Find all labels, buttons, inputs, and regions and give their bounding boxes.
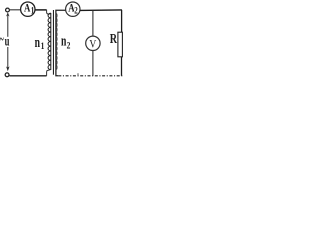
wire dashed return rail bbox=[58, 75, 122, 77]
secondary winding n2 scallops bbox=[56, 13, 57, 69]
voltage arrow shaft upper bbox=[7, 14, 9, 37]
svg-text:1: 1 bbox=[41, 40, 45, 51]
junction tick artifact on rail bbox=[77, 73, 79, 75]
label R bbox=[110, 30, 118, 46]
label n2 bbox=[61, 33, 66, 50]
svg-text:~: ~ bbox=[0, 30, 4, 48]
label n1 bbox=[35, 34, 40, 51]
primary winding bottom lead bbox=[47, 69, 51, 75]
wire terminal to A1 bbox=[10, 9, 21, 11]
secondary axis line with corner to A2 wire and bottom corner bbox=[56, 10, 66, 76]
svg-text:R: R bbox=[110, 30, 118, 46]
voltage arrow shaft lower bbox=[7, 47, 9, 68]
wire resistor bottom lead bbox=[121, 57, 123, 76]
ammeter A1 bbox=[21, 2, 35, 16]
label ~u bbox=[0, 30, 4, 48]
wire A2 to right corner bbox=[80, 9, 122, 12]
transformer core line bbox=[52, 10, 54, 75]
svg-text:2: 2 bbox=[67, 40, 71, 51]
svg-text:n: n bbox=[35, 34, 40, 51]
resistor R body bbox=[118, 32, 123, 57]
primary winding axis bbox=[50, 13, 52, 70]
primary winding n1 loops bbox=[48, 13, 51, 69]
svg-text:2: 2 bbox=[74, 6, 77, 16]
svg-text:u: u bbox=[5, 35, 10, 49]
terminal (bottom-left input) bbox=[5, 73, 9, 77]
svg-text:A: A bbox=[24, 3, 31, 15]
voltage arrowhead up bbox=[6, 12, 9, 16]
wire voltmeter down to return rail bbox=[92, 50, 94, 75]
voltmeter V bbox=[86, 36, 100, 50]
voltage arrowhead down bbox=[6, 66, 9, 71]
terminal (top-left input) bbox=[6, 8, 10, 12]
primary winding top lead bbox=[47, 10, 51, 14]
wire right drop to resistor bbox=[121, 10, 123, 33]
svg-text:1: 1 bbox=[31, 6, 35, 16]
svg-text:V: V bbox=[89, 37, 96, 50]
wire voltmeter branch bbox=[92, 10, 94, 36]
wire A1 to primary top lead bbox=[35, 9, 47, 11]
wire bottom-left to terminal bbox=[9, 75, 46, 77]
ammeter A2 bbox=[66, 2, 80, 16]
svg-text:n: n bbox=[61, 33, 66, 50]
